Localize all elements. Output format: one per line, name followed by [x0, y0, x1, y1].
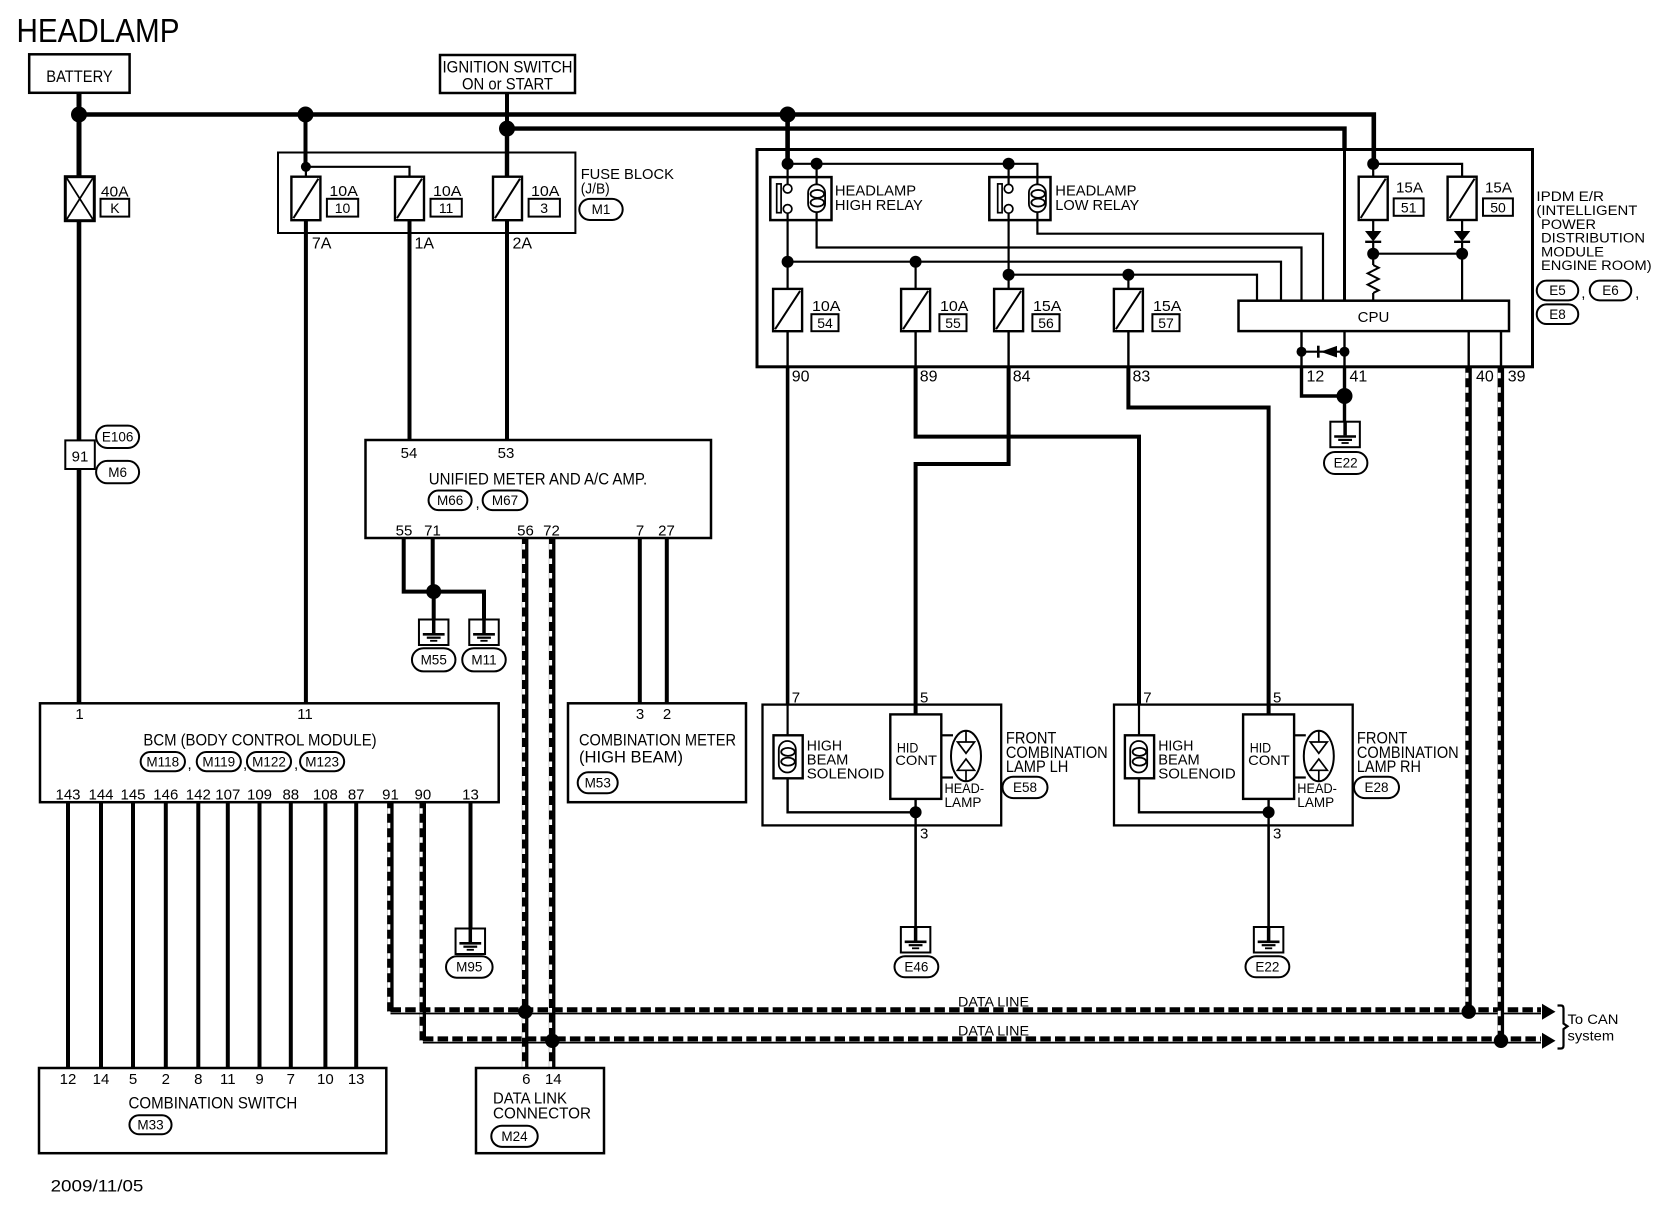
resistor zigzag — [1368, 265, 1379, 293]
node relay high coil feed — [811, 158, 823, 170]
svg-text:88: 88 — [282, 787, 299, 804]
high beam solenoid LH — [774, 735, 803, 778]
svg-text:HEADLAMP: HEADLAMP — [17, 12, 180, 49]
wire high relay contact to fuse row — [786, 213, 788, 289]
svg-text:107: 107 — [215, 787, 240, 804]
wire UM pin 71 to ground junction — [431, 538, 435, 592]
node diode junction 51 — [1367, 248, 1379, 260]
svg-text:71: 71 — [424, 523, 441, 540]
wire CPU pin 39 — [1500, 331, 1502, 367]
node lamp RH internal junction — [1263, 806, 1275, 818]
svg-text:145: 145 — [120, 787, 145, 804]
svg-text:11: 11 — [220, 1071, 236, 1088]
svg-text:90: 90 — [792, 369, 810, 386]
svg-text:12: 12 — [60, 1071, 77, 1088]
wire 89 to RH solenoid pin 7 — [914, 331, 916, 367]
wire CPU pin 12 — [1300, 331, 1302, 367]
wire BCM 108 to switch 10 — [323, 802, 327, 1068]
svg-text:146: 146 — [153, 787, 178, 804]
wire 84 to LH HID pin 5 — [1007, 331, 1009, 367]
svg-text:2: 2 — [663, 706, 671, 723]
svg-text:M118: M118 — [146, 754, 179, 769]
svg-text:To CAN: To CAN — [1568, 1012, 1619, 1027]
svg-text:9: 9 — [255, 1071, 263, 1088]
connector E28 oval — [1354, 777, 1399, 798]
svg-text:8: 8 — [194, 1071, 202, 1088]
node low feed at fuse 57 — [1122, 269, 1134, 281]
svg-text:5: 5 — [1273, 690, 1281, 707]
headlamp bulb RH — [1294, 734, 1306, 736]
wire bus to fuse 3 — [505, 129, 509, 177]
svg-text:5: 5 — [920, 690, 928, 707]
svg-text:1: 1 — [75, 706, 83, 723]
svg-text:ON or START: ON or START — [462, 75, 553, 94]
node high feed at fuse 54 — [782, 256, 794, 268]
svg-text:55: 55 — [396, 523, 413, 540]
wire low beam feed row — [1009, 275, 1257, 301]
node fuse-block battery branch — [298, 107, 314, 123]
wire 83 to RH HID pin 5 — [1127, 331, 1129, 367]
svg-text:10A: 10A — [940, 298, 969, 315]
wire BCM 146 to switch 2 — [164, 802, 168, 1068]
svg-text:10: 10 — [335, 200, 351, 216]
svg-text:54: 54 — [817, 315, 833, 331]
svg-text:53: 53 — [498, 445, 515, 462]
wire BCM pin 13 to ground M95 — [469, 802, 473, 928]
wire fuse 55 drop — [914, 262, 916, 289]
node high feed at fuse 55 — [910, 256, 922, 268]
HID CONT box LH — [890, 714, 941, 799]
fuse 15A 57 — [1114, 289, 1143, 331]
data line BCM pin 90 — [420, 802, 425, 1041]
wire DLC pin 14 drop — [549, 1041, 554, 1068]
connector M6 oval — [96, 461, 139, 483]
svg-text:14: 14 — [93, 1071, 110, 1088]
svg-text:M66: M66 — [437, 493, 463, 508]
connector M33 oval — [129, 1115, 171, 1134]
wire to low relay contact — [1007, 164, 1009, 185]
svg-text:COMBINATION SWITCH: COMBINATION SWITCH — [129, 1094, 298, 1113]
svg-text:27: 27 — [658, 523, 675, 540]
wire HID cont to junction — [914, 799, 916, 826]
svg-text:CONT: CONT — [895, 752, 937, 768]
fuse 10A 3 — [493, 177, 522, 221]
wire branch to fuse 11 — [306, 167, 410, 177]
svg-text:84: 84 — [1013, 369, 1031, 386]
wire high beam feed row — [788, 262, 1281, 301]
data link connector box M24 — [476, 1068, 604, 1153]
node fuse block inner junction — [301, 162, 311, 172]
node relay low contact feed — [1003, 158, 1015, 170]
fuse 10A 54 — [773, 289, 802, 331]
wire solenoid to lamp junction RH — [1139, 778, 1269, 812]
node diode junction 50 — [1456, 248, 1468, 260]
IPDM E/R box — [757, 150, 1533, 367]
fuse 15A 56 — [994, 289, 1023, 331]
svg-text:15A: 15A — [1033, 298, 1062, 315]
data line IPDM pin 40 — [1465, 367, 1470, 1012]
ground M95 — [456, 929, 486, 955]
wire junction to ground M11 — [434, 592, 484, 620]
fuse block J/B box M1 — [278, 153, 575, 234]
svg-text:57: 57 — [1158, 315, 1174, 331]
svg-text:108: 108 — [313, 787, 338, 804]
node pins 12/41 join — [1337, 388, 1353, 404]
front combination lamp LH box — [763, 705, 1002, 826]
battery B+ box — [29, 54, 129, 93]
svg-text:DATA LINE: DATA LINE — [958, 1023, 1029, 1039]
wire to high relay contact — [786, 164, 788, 185]
resistor to CPU — [1372, 254, 1374, 265]
ignition switch box — [440, 55, 575, 93]
connector M53 oval — [578, 772, 618, 793]
svg-text:109: 109 — [247, 787, 272, 804]
wire battery bus to IPDM feed — [785, 115, 790, 164]
wire CPU pin 41 — [1343, 331, 1345, 367]
svg-text:10A: 10A — [531, 183, 560, 200]
wire BCM 87 to switch 13 — [354, 802, 358, 1068]
wire BCM 107 to switch 11 — [226, 802, 230, 1068]
svg-text:89: 89 — [920, 369, 938, 386]
node DLC pin6 on upper data line — [518, 1005, 532, 1019]
node diode pin41 — [1340, 347, 1350, 357]
svg-text:M95: M95 — [456, 960, 482, 975]
wire pin 41 below IPDM — [1343, 367, 1346, 422]
CPU box — [1239, 301, 1510, 331]
node DLC pin14 on lower data line — [545, 1034, 559, 1048]
connector M66 oval — [429, 491, 472, 511]
wire low relay contact to fuse row — [1007, 213, 1009, 289]
fuse 10A 11 — [395, 177, 424, 221]
wire 7A to BCM pin 11 — [304, 221, 308, 704]
wire BCM 109 to switch 9 — [258, 802, 262, 1068]
ground E22 upper — [1330, 422, 1360, 448]
svg-text:LAMP LH: LAMP LH — [1006, 757, 1068, 776]
svg-text:11: 11 — [439, 200, 454, 216]
svg-text:56: 56 — [517, 523, 534, 540]
svg-text:,: , — [1635, 285, 1639, 302]
svg-text:1A: 1A — [415, 236, 435, 253]
svg-text:7: 7 — [1143, 690, 1151, 707]
headlamp bulb LH — [941, 734, 953, 736]
svg-text:,: , — [476, 495, 480, 512]
diode under fuse 50 — [1454, 231, 1470, 242]
unified meter and A/C amp box — [366, 440, 712, 538]
wire BCM 142 to switch 8 — [196, 802, 200, 1068]
ground M55 — [419, 620, 449, 646]
svg-text:M123: M123 — [305, 754, 339, 769]
svg-text:BCM (BODY CONTROL MODULE): BCM (BODY CONTROL MODULE) — [143, 731, 376, 750]
svg-text:LAMP: LAMP — [945, 795, 982, 810]
svg-text:,: , — [188, 756, 192, 773]
data line IPDM pin 39 — [1498, 367, 1503, 1041]
svg-text:13: 13 — [462, 787, 479, 804]
wire BCM 88 to switch 7 — [289, 802, 293, 1068]
svg-text:SOLENOID: SOLENOID — [1158, 766, 1236, 783]
ground E46 — [901, 927, 931, 953]
svg-text:M1: M1 — [592, 202, 611, 217]
svg-text:LOW RELAY: LOW RELAY — [1055, 197, 1139, 214]
combination meter box M53 — [568, 703, 746, 802]
svg-text:2009/11/05: 2009/11/05 — [51, 1177, 144, 1196]
svg-text:3: 3 — [1273, 826, 1281, 843]
svg-text:E28: E28 — [1364, 780, 1388, 795]
connector E8 oval — [1537, 304, 1579, 324]
svg-text:DATA LINE: DATA LINE — [958, 994, 1029, 1010]
fuse 10A 55 — [901, 289, 930, 331]
data line UM pin 56 — [522, 538, 527, 1012]
connector M24 oval — [491, 1126, 537, 1147]
connector E6 oval — [1590, 281, 1632, 301]
wire pin7 to solenoid RH — [1138, 705, 1140, 736]
node ignition bus junction — [499, 121, 515, 137]
node diode pin12 — [1297, 347, 1307, 357]
wire UM pin 7 to comb meter pin 3 — [638, 538, 642, 703]
svg-text:15A: 15A — [1485, 180, 1512, 197]
svg-text:56: 56 — [1038, 315, 1054, 331]
svg-text:SOLENOID: SOLENOID — [807, 766, 885, 783]
wire diode 51 to junction — [1372, 242, 1374, 254]
svg-text:54: 54 — [401, 445, 418, 462]
svg-text:50: 50 — [1490, 199, 1506, 215]
headlamp high relay — [770, 177, 831, 220]
svg-text:LAMP: LAMP — [1297, 795, 1334, 810]
connector E106 oval — [96, 426, 139, 448]
wire feed to fuse 50 — [1373, 164, 1462, 177]
lower data line wire — [423, 1036, 1541, 1041]
node relay high contact feed — [782, 158, 794, 170]
svg-text:(INTELLIGENT: (INTELLIGENT — [1536, 203, 1637, 218]
svg-text:10A: 10A — [433, 183, 462, 200]
wire to high relay coil — [815, 164, 817, 185]
svg-text:M53: M53 — [585, 776, 611, 791]
front combination lamp RH box — [1114, 705, 1353, 826]
svg-text:E106: E106 — [102, 430, 134, 445]
svg-text:HIGH RELAY: HIGH RELAY — [835, 197, 923, 214]
wire pin7 to solenoid — [786, 705, 788, 736]
diode pointing left — [1317, 346, 1320, 358]
svg-text:7: 7 — [636, 523, 644, 540]
wire joining diode outputs — [1373, 253, 1462, 255]
wire 1A to unified meter pin 54 — [408, 221, 412, 440]
connector M67 oval — [483, 491, 528, 511]
svg-text:41: 41 — [1350, 369, 1368, 386]
node battery bus junction — [71, 107, 87, 123]
data line UM pin 72 — [549, 538, 554, 1041]
svg-text:M122: M122 — [252, 754, 286, 769]
svg-text:5: 5 — [129, 1071, 137, 1088]
combination switch box M33 — [39, 1068, 386, 1153]
svg-text:M6: M6 — [108, 465, 127, 480]
svg-text:system: system — [1568, 1029, 1615, 1044]
node IPDM 40 on upper data line — [1462, 1005, 1476, 1019]
svg-text:51: 51 — [1401, 199, 1417, 215]
wire BCM 145 to switch 5 — [131, 802, 135, 1068]
svg-text:E22: E22 — [1334, 456, 1358, 471]
wire high relay coil to CPU — [817, 212, 1302, 301]
connector M118 oval — [141, 752, 185, 771]
svg-text:E8: E8 — [1549, 307, 1566, 322]
wire low relay coil to CPU — [1037, 212, 1323, 301]
wire junction to ground M55 — [432, 592, 436, 620]
svg-text:M33: M33 — [137, 1117, 163, 1132]
svg-text:12: 12 — [1307, 369, 1325, 386]
wire pin 12 below IPDM — [1302, 367, 1345, 396]
svg-text:BATTERY: BATTERY — [46, 67, 113, 86]
wire battery to bus — [77, 93, 82, 115]
svg-text:M119: M119 — [202, 754, 235, 769]
connector E5 oval — [1537, 281, 1579, 301]
fuse 15A 50 — [1448, 177, 1477, 220]
wire 2A to unified meter pin 53 — [505, 221, 509, 440]
wire HID cont to junction RH — [1267, 799, 1269, 826]
svg-text:55: 55 — [945, 315, 961, 331]
svg-text:E6: E6 — [1602, 283, 1619, 298]
wire bus to fuse 10 — [304, 115, 308, 167]
svg-text:CONNECTOR: CONNECTOR — [493, 1106, 591, 1123]
svg-text:ENGINE ROOM): ENGINE ROOM) — [1541, 258, 1652, 273]
HID CONT box RH — [1243, 714, 1294, 799]
BCM body control module box — [40, 703, 499, 802]
wire diode 50 to junction — [1461, 242, 1463, 254]
svg-text:10A: 10A — [329, 183, 358, 200]
To CAN system brace — [1558, 1006, 1568, 1049]
svg-text:3: 3 — [636, 706, 644, 723]
connector M1 oval — [579, 199, 622, 220]
svg-text:(HIGH BEAM): (HIGH BEAM) — [579, 748, 683, 767]
svg-text:POWER: POWER — [1541, 217, 1596, 232]
svg-text:UNIFIED METER AND A/C AMP.: UNIFIED METER AND A/C AMP. — [429, 469, 647, 488]
battery bus wire — [79, 115, 1374, 164]
svg-text:MODULE: MODULE — [1541, 244, 1604, 259]
svg-text:2A: 2A — [513, 236, 533, 253]
svg-text:7: 7 — [287, 1071, 295, 1088]
wire 90 to LH solenoid pin 7 — [786, 331, 788, 367]
diode under fuse 51 — [1365, 231, 1381, 242]
svg-text:E22: E22 — [1255, 960, 1279, 975]
svg-text:15A: 15A — [1153, 298, 1182, 315]
svg-text:,: , — [294, 756, 298, 773]
svg-text:HEAD-: HEAD- — [945, 781, 985, 796]
node IPDM battery branch — [780, 107, 796, 123]
upper data line wire — [391, 1007, 1542, 1012]
svg-text:39: 39 — [1508, 369, 1526, 386]
svg-text:90: 90 — [415, 787, 432, 804]
wire fusible link to BCM pin 1 — [77, 221, 82, 704]
svg-text:3: 3 — [920, 826, 928, 843]
svg-text:142: 142 — [186, 787, 211, 804]
svg-text:M55: M55 — [421, 653, 447, 668]
high beam solenoid RH — [1125, 735, 1154, 778]
svg-text:10A: 10A — [812, 298, 841, 315]
svg-text:13: 13 — [348, 1071, 365, 1088]
connector 91 box E106/M6 — [65, 440, 95, 469]
svg-text:14: 14 — [545, 1071, 562, 1088]
wire ignition switch drop — [505, 93, 509, 129]
svg-text:11: 11 — [297, 706, 313, 723]
node low feed at fuse 56 — [1003, 269, 1015, 281]
wire fuse 57 drop — [1127, 275, 1129, 289]
ground E22 lower — [1254, 927, 1284, 953]
svg-text:7A: 7A — [312, 236, 332, 253]
ignition bus wire — [507, 129, 1345, 150]
wire fuse 51 to diode — [1372, 220, 1374, 231]
battery feed inside IPDM — [1372, 164, 1374, 177]
wire UM pin 27 to comb meter pin 2 — [665, 538, 669, 703]
wire CPU pin 40 — [1467, 331, 1469, 367]
svg-text:7: 7 — [792, 690, 800, 707]
svg-text:K: K — [110, 200, 120, 216]
fuse 15A 51 — [1359, 177, 1388, 220]
svg-text:3: 3 — [540, 200, 548, 216]
node ground junction — [426, 584, 441, 599]
wire BCM 144 to switch 14 — [99, 802, 103, 1068]
node IPDM 39 on lower data line — [1494, 1034, 1508, 1048]
svg-text:10: 10 — [317, 1071, 334, 1088]
svg-text:DISTRIBUTION: DISTRIBUTION — [1541, 231, 1645, 246]
wire DLC pin 6 drop — [522, 1012, 527, 1068]
svg-text:6: 6 — [522, 1071, 530, 1088]
svg-text:40A: 40A — [101, 183, 129, 200]
svg-text:,: , — [1581, 285, 1585, 302]
svg-text:144: 144 — [88, 787, 113, 804]
svg-text:E58: E58 — [1013, 780, 1037, 795]
svg-text:91: 91 — [72, 449, 89, 466]
IPDM inner top bus — [788, 164, 1038, 185]
connector E58 oval — [1003, 777, 1048, 798]
node lamp LH internal junction — [910, 806, 922, 818]
connector M122 oval — [247, 752, 291, 771]
connector M119 oval — [197, 752, 241, 771]
wire BCM 143 to switch 12 — [66, 802, 70, 1068]
headlamp low relay — [989, 177, 1050, 220]
svg-text:72: 72 — [543, 523, 560, 540]
svg-text:LAMP RH: LAMP RH — [1357, 757, 1421, 776]
wire UM pin 55 to ground junction — [404, 538, 434, 592]
svg-text:40: 40 — [1476, 369, 1494, 386]
wire solenoid to lamp junction — [788, 778, 916, 812]
svg-text:2: 2 — [162, 1071, 170, 1088]
svg-text:CONT: CONT — [1248, 752, 1290, 768]
svg-text:91: 91 — [382, 787, 399, 804]
svg-text:E5: E5 — [1549, 283, 1566, 298]
wire bus to fusible link — [77, 115, 82, 177]
svg-text:M67: M67 — [492, 493, 518, 508]
fuse 10A 10 — [291, 177, 320, 221]
svg-text:(J/B): (J/B) — [581, 180, 610, 197]
svg-text:15A: 15A — [1396, 180, 1423, 197]
svg-text:83: 83 — [1133, 369, 1151, 386]
wire fuse 50 branch to CPU — [1461, 254, 1463, 301]
data line BCM pin 91 — [387, 802, 392, 1012]
svg-text:M11: M11 — [471, 653, 496, 668]
ground M11 — [469, 620, 499, 646]
svg-text:IPDM E/R: IPDM E/R — [1536, 189, 1604, 204]
svg-text:E46: E46 — [904, 960, 928, 975]
svg-text:HEAD-: HEAD- — [1297, 781, 1337, 796]
fusible link 40A K — [65, 177, 94, 221]
wire fuse 50 to diode — [1461, 220, 1463, 231]
svg-text:M24: M24 — [501, 1129, 528, 1144]
node fuse 51/50 feed — [1367, 158, 1379, 170]
svg-text:CPU: CPU — [1358, 309, 1390, 326]
svg-text:143: 143 — [55, 787, 80, 804]
diode row pins 12-41 — [1302, 351, 1345, 353]
svg-text:87: 87 — [348, 787, 365, 804]
connector M123 oval — [300, 752, 344, 771]
